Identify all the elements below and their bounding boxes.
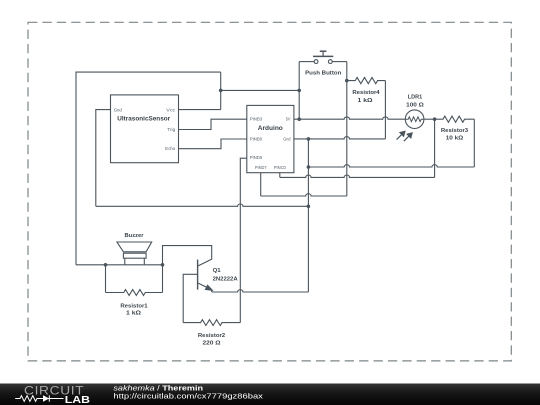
svg-text:LAB: LAB — [65, 395, 90, 405]
svg-text:Trig: Trig — [167, 127, 175, 132]
svg-text:Q1: Q1 — [213, 268, 222, 274]
svg-text:Echo: Echo — [165, 146, 175, 151]
svg-text:Resistor2: Resistor2 — [198, 333, 225, 339]
svg-text:5V: 5V — [286, 117, 291, 122]
svg-text:1 kΩ: 1 kΩ — [126, 310, 141, 316]
svg-text:Resistor3: Resistor3 — [441, 128, 469, 134]
svg-text:PIND5: PIND5 — [250, 155, 263, 160]
svg-text:Push Button: Push Button — [305, 70, 342, 76]
svg-text:2N2222A: 2N2222A — [213, 276, 239, 282]
svg-text:Arduino: Arduino — [258, 125, 283, 132]
svg-text:PINB0: PINB0 — [250, 137, 263, 142]
svg-text:100 Ω: 100 Ω — [406, 103, 424, 109]
svg-text:Vcc: Vcc — [166, 107, 176, 112]
svg-text:Resistor4: Resistor4 — [352, 90, 380, 96]
svg-text:http://circuitlab.com/cx7779gz: http://circuitlab.com/cx7779gz86bax — [113, 392, 263, 401]
svg-text:PIND7: PIND7 — [255, 165, 267, 170]
svg-text:1 kΩ: 1 kΩ — [358, 98, 373, 104]
svg-text:LDR1: LDR1 — [408, 94, 423, 100]
svg-text:PINB3: PINB3 — [250, 117, 263, 122]
svg-text:Gnd: Gnd — [283, 137, 291, 142]
svg-text:Gnd: Gnd — [114, 107, 123, 112]
svg-text:10 kΩ: 10 kΩ — [446, 136, 464, 142]
svg-text:Resistor1: Resistor1 — [120, 303, 148, 309]
svg-text:PINC0: PINC0 — [274, 165, 287, 170]
svg-text:220 Ω: 220 Ω — [203, 340, 221, 346]
svg-text:UltrasonicSensor: UltrasonicSensor — [117, 115, 171, 122]
svg-text:Buzzer: Buzzer — [125, 233, 145, 239]
